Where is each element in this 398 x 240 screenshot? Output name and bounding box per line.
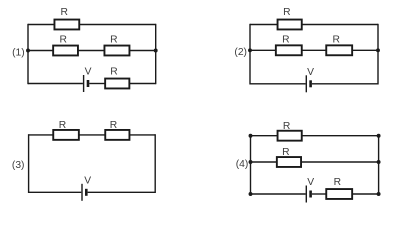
wire: c2 middle branch left segment	[250, 49, 275, 51]
node: c4 top-right junction	[377, 134, 381, 138]
svg-text:R: R	[110, 35, 117, 46]
resistor R (c3 top branch, left)	[53, 130, 79, 140]
wire: c4 middle branch left segment	[251, 161, 277, 163]
svg-text:V: V	[307, 177, 314, 188]
svg-text:R: R	[59, 35, 66, 46]
wire: c3 right rail	[154, 134, 156, 193]
svg-text:(2): (2)	[234, 47, 247, 58]
svg-text:R: R	[110, 67, 117, 78]
resistor R (c2 top branch)	[278, 20, 302, 30]
resistor R (c1 bottom branch)	[105, 79, 129, 89]
wire: c1 battery-to-resistor segment	[89, 83, 104, 85]
node: c4 bottom-left junction	[249, 192, 253, 196]
node: c4 top-left junction	[249, 134, 253, 138]
wire: c3 bottom branch right segment	[88, 191, 156, 193]
svg-text:R: R	[110, 120, 117, 131]
node: c1 left junction	[26, 49, 30, 53]
resistor R (c1 middle branch, left)	[53, 46, 78, 56]
wire: c1 top branch right segment	[80, 24, 156, 26]
wire: c3 top branch center segment	[79, 134, 105, 136]
resistor R (c4 bottom branch)	[326, 189, 352, 199]
wire: c2 bottom branch left segment	[250, 83, 306, 85]
svg-text:R: R	[283, 121, 290, 132]
wire: c1 left rail	[27, 24, 29, 84]
svg-text:(3): (3)	[12, 160, 25, 171]
svg-text:R: R	[334, 177, 341, 188]
svg-text:R: R	[60, 7, 67, 18]
node: c4 middle-right junction	[377, 160, 381, 164]
battery V (c3, long positive plate)	[81, 184, 83, 201]
wire: c4 battery-to-resistor segment	[312, 193, 326, 195]
svg-text:R: R	[283, 7, 290, 18]
wire: c2 right rail	[377, 24, 379, 85]
wire: c4 top branch right segment	[302, 135, 378, 137]
wire: c4 right rail	[378, 136, 380, 194]
node: c4 middle-left junction	[249, 160, 253, 164]
resistor R (c1 middle branch, right)	[104, 46, 129, 56]
svg-text:R: R	[282, 147, 289, 158]
resistor R (c1 top branch)	[54, 20, 79, 30]
wire: c2 left rail	[249, 24, 251, 85]
resistor R (c4 top branch)	[278, 131, 302, 141]
svg-text:V: V	[307, 67, 314, 78]
wire: c3 top branch right segment	[130, 134, 155, 136]
resistor R (c3 top branch, right)	[105, 130, 129, 140]
wire: c1 middle branch right segment	[130, 50, 156, 52]
wire: c4 top branch left segment	[251, 135, 278, 137]
wire: c2 top branch right segment	[302, 24, 378, 26]
wire: c3 left rail	[28, 134, 30, 193]
wire: c4 bottom branch left segment	[251, 193, 306, 195]
node: c2 right junction	[376, 48, 380, 52]
svg-text:(4): (4)	[236, 159, 249, 170]
wire: c3 bottom branch left segment	[29, 191, 82, 193]
svg-text:R: R	[282, 34, 289, 45]
node: c1 right junction	[154, 49, 158, 53]
wire: c4 left rail	[250, 136, 252, 194]
wire: c2 middle branch center segment	[302, 49, 326, 51]
wire: c2 top branch left segment	[250, 24, 277, 26]
svg-text:R: R	[59, 120, 66, 131]
wire: c2 bottom branch right segment	[312, 83, 378, 85]
resistor R (c4 middle branch)	[277, 157, 301, 167]
resistor R (c2 middle branch, left)	[276, 45, 302, 55]
wire: c1 middle branch center segment	[79, 50, 105, 52]
wire: c1 right rail	[155, 24, 157, 84]
resistor R (c2 middle branch, right)	[326, 45, 352, 55]
svg-text:V: V	[84, 176, 91, 187]
battery V (c1, short negative plate)	[87, 80, 90, 87]
battery V (c2, short negative plate)	[309, 80, 312, 87]
svg-text:R: R	[332, 34, 339, 45]
battery V (c2, long positive plate)	[305, 75, 307, 92]
wire: c1 bottom branch right segment	[129, 83, 155, 85]
wire: c1 top branch left segment	[28, 24, 54, 26]
node: c4 bottom-right junction	[377, 192, 381, 196]
battery V (c3, short negative plate)	[85, 189, 88, 196]
wire: c1 bottom branch left segment	[28, 83, 83, 85]
battery V (c1, long positive plate)	[83, 75, 85, 92]
wire: c3 top branch left segment	[29, 134, 53, 136]
wire: c1 middle branch left segment	[28, 50, 53, 52]
battery V (c4, long positive plate)	[305, 186, 307, 203]
wire: c4 bottom branch right segment	[353, 193, 379, 195]
battery V (c4, short negative plate)	[309, 191, 312, 198]
wire: c2 middle branch right segment	[353, 49, 378, 51]
svg-text:V: V	[85, 67, 92, 78]
svg-text:(1): (1)	[12, 48, 25, 59]
wire: c4 middle branch right segment	[302, 161, 379, 163]
node: c2 left junction	[248, 48, 252, 52]
